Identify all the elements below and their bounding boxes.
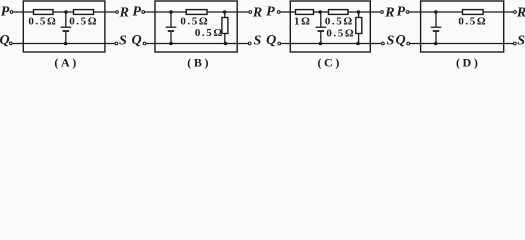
svg-text:R: R (119, 5, 129, 20)
svg-text:P: P (132, 5, 141, 20)
svg-text:Q: Q (396, 33, 406, 48)
svg-text:0.5Ω: 0.5Ω (195, 27, 224, 39)
svg-text:R: R (516, 5, 525, 20)
svg-text:R: R (384, 5, 394, 20)
svg-text:0.5Ω: 0.5Ω (325, 16, 354, 28)
svg-text:S: S (387, 34, 395, 49)
svg-text:1Ω: 1Ω (294, 16, 312, 28)
svg-text:0.5Ω: 0.5Ω (69, 16, 98, 28)
svg-text:P: P (397, 5, 406, 20)
svg-text:Q: Q (132, 33, 142, 48)
svg-text:(A): (A) (54, 56, 78, 70)
svg-text:Q: Q (266, 33, 276, 48)
svg-text:0.5Ω: 0.5Ω (28, 16, 57, 28)
svg-text:(D): (D) (456, 56, 480, 70)
svg-text:R: R (252, 5, 262, 20)
svg-text:S: S (254, 34, 262, 49)
svg-text:0.5Ω: 0.5Ω (180, 16, 209, 28)
svg-text:0.5Ω: 0.5Ω (458, 16, 487, 28)
svg-text:(C): (C) (317, 56, 341, 70)
svg-text:Q: Q (0, 33, 10, 48)
svg-text:0.5Ω: 0.5Ω (326, 28, 355, 40)
svg-text:S: S (517, 34, 525, 49)
svg-text:P: P (266, 5, 275, 20)
svg-text:(B): (B) (187, 56, 211, 70)
svg-text:P: P (1, 5, 10, 20)
svg-text:S: S (119, 34, 127, 49)
